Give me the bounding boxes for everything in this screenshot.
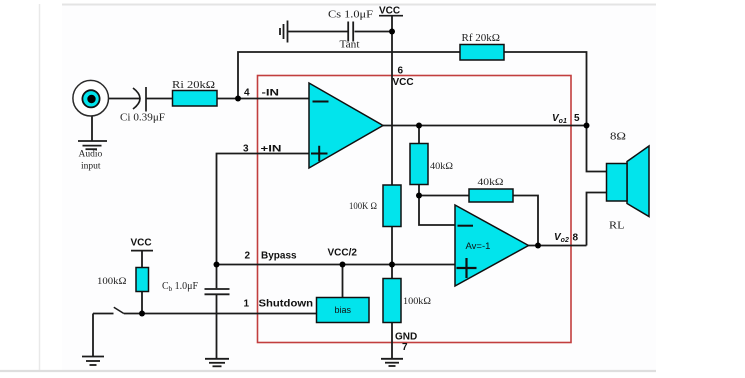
svg-text:+IN: +IN	[261, 144, 282, 155]
svg-text:100K Ω: 100K Ω	[349, 202, 377, 212]
svg-text:Av=-1: Av=-1	[466, 241, 491, 252]
svg-text:Audio: Audio	[79, 150, 103, 160]
svg-text:Bypass: Bypass	[261, 251, 297, 262]
svg-text:Ri 20kΩ: Ri 20kΩ	[172, 80, 215, 91]
svg-text:40kΩ: 40kΩ	[430, 162, 453, 172]
svg-text:Cb 1.0μF: Cb 1.0μF	[162, 281, 199, 293]
svg-text:bias: bias	[335, 305, 352, 315]
svg-text:GND: GND	[395, 332, 417, 343]
svg-text:RL: RL	[609, 221, 625, 232]
svg-text:7: 7	[402, 342, 408, 353]
svg-text:Shutdown: Shutdown	[259, 299, 314, 310]
svg-text:Cs 1.0μF: Cs 1.0μF	[328, 10, 374, 21]
svg-text:100kΩ: 100kΩ	[403, 297, 431, 307]
svg-text:input: input	[81, 162, 101, 172]
svg-text:Ci 0.39μF: Ci 0.39μF	[120, 113, 165, 124]
svg-text:100kΩ: 100kΩ	[97, 277, 127, 287]
svg-text:8: 8	[573, 233, 579, 244]
svg-text:3: 3	[243, 144, 249, 155]
svg-text:5: 5	[574, 113, 580, 124]
svg-text:VCC/2: VCC/2	[328, 248, 358, 259]
svg-text:Tant: Tant	[340, 40, 360, 51]
svg-text:-IN: -IN	[262, 88, 280, 99]
svg-text:VCC: VCC	[379, 6, 400, 17]
svg-text:4: 4	[244, 88, 250, 99]
svg-text:Rf 20kΩ: Rf 20kΩ	[462, 33, 501, 44]
svg-text:1: 1	[244, 299, 250, 310]
svg-text:40kΩ: 40kΩ	[478, 178, 504, 188]
svg-text:8Ω: 8Ω	[610, 132, 626, 143]
svg-text:VCC: VCC	[131, 238, 152, 249]
svg-text:VCC: VCC	[393, 77, 414, 88]
svg-text:6: 6	[398, 66, 404, 77]
svg-text:2: 2	[245, 251, 251, 262]
